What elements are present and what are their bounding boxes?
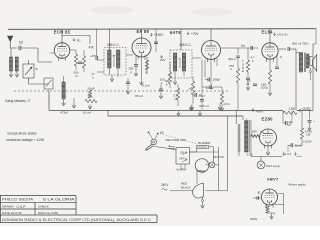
svg-text:K: K: [166, 83, 168, 87]
svg-text:47k: 47k: [89, 46, 95, 50]
svg-text:·006 mf 750v: ·006 mf 750v: [291, 41, 309, 45]
svg-text:·01 mf: ·01 mf: [82, 111, 91, 115]
svg-text:DOMINION RADIO & ELECTRICAL: DOMINION RADIO & ELECTRICAL CORP LTD (NA…: [2, 218, 152, 222]
svg-text:PHILCO SIESTA: PHILCO SIESTA: [2, 198, 34, 202]
svg-text:25K: 25K: [252, 129, 257, 133]
svg-text:Pilot Lamp: Pilot Lamp: [266, 164, 281, 168]
svg-text:150Ω: 150Ω: [250, 217, 258, 221]
svg-text:ON: ON: [180, 151, 184, 155]
svg-text:DWG No 6330: DWG No 6330: [38, 211, 58, 215]
svg-text:·0 mf: ·0 mf: [198, 94, 205, 98]
svg-text:TIMER: TIMER: [196, 169, 205, 173]
svg-text:Gang Massey ‘C’: Gang Massey ‘C’: [5, 99, 31, 103]
svg-text:EZ80: EZ80: [262, 117, 274, 122]
svg-text:B: B: [36, 67, 38, 71]
svg-text:6BV7: 6BV7: [267, 177, 279, 182]
svg-text:240V: 240V: [161, 183, 169, 187]
svg-text:BUZZER: BUZZER: [198, 141, 211, 145]
svg-text:+70V: +70V: [191, 32, 199, 36]
svg-text:50μF: 50μF: [88, 87, 95, 91]
svg-text:EL84: EL84: [262, 30, 274, 35]
svg-text:+211·5v: +211·5v: [277, 32, 288, 36]
svg-text:·0 1mf: ·0 1mf: [142, 83, 150, 87]
svg-text:C.S.P.: C.S.P.: [17, 205, 27, 209]
svg-text:+215V: +215V: [303, 140, 312, 144]
svg-text:CHECK: CHECK: [38, 205, 50, 209]
svg-text:DRAWN: DRAWN: [2, 205, 14, 209]
svg-text:S LA GLORIA: S LA GLORIA: [43, 198, 76, 202]
svg-text:E: E: [242, 69, 244, 73]
svg-text:100μf: 100μf: [213, 77, 221, 81]
svg-text:RELAYED OFF: RELAYED OFF: [166, 138, 187, 142]
svg-text:Except where stated: Except where stated: [8, 132, 37, 136]
svg-text:resistance wattage = 1/2W: resistance wattage = 1/2W: [6, 138, 44, 142]
svg-text:27k: 27k: [88, 95, 93, 99]
svg-text:450 p: 450 p: [228, 57, 236, 61]
svg-text:mf: mf: [246, 82, 249, 86]
svg-text:4.7m: 4.7m: [223, 102, 230, 106]
svg-text:1.5K: 1.5K: [289, 107, 296, 111]
svg-text:2 4 5: 2 4 5: [285, 152, 292, 156]
svg-text:Where applic.: Where applic.: [288, 182, 307, 186]
svg-text:62V: 62V: [160, 58, 166, 62]
svg-text:6.3V: 6.3V: [247, 152, 253, 156]
svg-text:+87V: +87V: [90, 54, 97, 58]
svg-text:6AT6: 6AT6: [170, 30, 181, 35]
svg-text:32mf: 32mf: [295, 144, 302, 148]
svg-text:·0μf: ·0μf: [240, 43, 245, 47]
svg-text:100Ω: 100Ω: [261, 86, 269, 90]
svg-text:mf: mf: [288, 123, 291, 127]
svg-text:465 K.C.: 465 K.C.: [107, 43, 120, 47]
svg-text:R2: R2: [77, 39, 81, 43]
svg-text:7pf: 7pf: [19, 41, 24, 45]
svg-text:473pf: 473pf: [60, 111, 68, 115]
svg-text:·005 mf: ·005 mf: [199, 104, 209, 108]
svg-text:1W: 1W: [306, 133, 311, 137]
svg-text:+190V: +190V: [154, 33, 164, 37]
svg-text:EF 89: EF 89: [137, 29, 150, 34]
svg-text:OFF: OFF: [179, 156, 185, 160]
svg-text:DATE 20-9-66: DATE 20-9-66: [2, 211, 22, 215]
svg-text:·05 mf: ·05 mf: [134, 94, 143, 98]
svg-text:BLACK: BLACK: [181, 186, 191, 190]
